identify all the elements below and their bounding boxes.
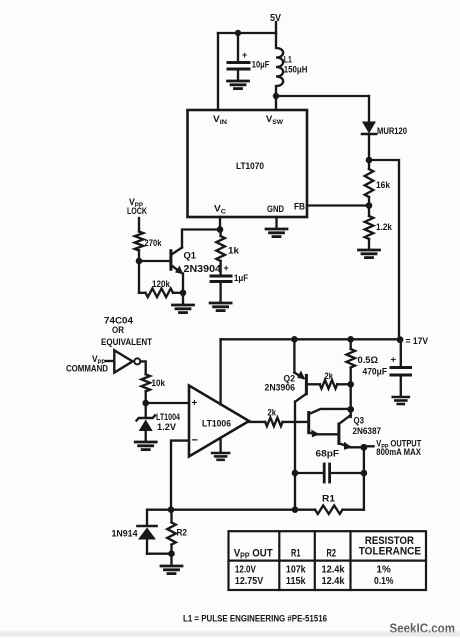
resistor 1k (216, 230, 239, 275)
node diode-16k junction (366, 157, 373, 164)
diode LT1004 1.2V reference (135, 403, 180, 450)
resistor 1.2k (365, 206, 393, 250)
capacitor C1 10uF (228, 33, 270, 89)
svg-text:68pF: 68pF (316, 449, 340, 460)
node L1 note (183, 614, 327, 624)
svg-text:1%: 1% (376, 564, 391, 576)
resistor 16k (365, 160, 391, 206)
svg-text:R2: R2 (327, 548, 337, 560)
wire 0.5ohm node down (347, 384, 354, 417)
svg-text:470μF: 470μF (363, 367, 388, 378)
resistor R1 (171, 494, 364, 515)
svg-text:16k: 16k (376, 180, 391, 191)
svg-text:TOLERANCE: TOLERANCE (359, 546, 421, 558)
resistor 0.5 ohm (346, 339, 378, 387)
op-amp U2 LT1006 (189, 386, 249, 457)
wire FB to divider (307, 202, 372, 209)
svg-text:1N914: 1N914 (112, 529, 139, 540)
wire Q2 collector drop (294, 402, 296, 510)
svg-text:0.5Ω: 0.5Ω (358, 355, 379, 366)
diode D2 1N914 (112, 526, 172, 554)
svg-text:EQUIVALENT: EQUIVALENT (101, 337, 152, 348)
wire inverting input feedback (168, 441, 189, 513)
svg-text:LT1006: LT1006 (202, 419, 231, 430)
wire scan smudge bottom (0, 632, 460, 637)
svg-text:LOCK: LOCK (127, 206, 147, 217)
table resistor values (229, 531, 427, 590)
wire inverter output (141, 361, 146, 374)
svg-text:+: + (224, 263, 229, 273)
wire output node down (361, 447, 368, 509)
svg-text:0.1%: 0.1% (374, 575, 394, 587)
svg-text:150μH: 150μH (284, 65, 308, 76)
svg-text:+: + (242, 50, 247, 60)
ground below 1.2k (359, 250, 380, 258)
svg-text:+: + (391, 355, 397, 366)
gate 74C04 inverter (101, 316, 152, 373)
svg-text:2k: 2k (325, 371, 334, 382)
svg-text:2N3906: 2N3906 (265, 383, 296, 394)
svg-text:1.2k: 1.2k (376, 222, 393, 233)
ground op-amp (212, 438, 229, 460)
svg-text:10μF: 10μF (252, 60, 270, 71)
node 17V label (406, 336, 429, 347)
svg-text:L1 = PULSE ENGINEERING #PE-515: L1 = PULSE ENGINEERING #PE-51516 (183, 614, 327, 624)
wire top horizontal (218, 30, 276, 36)
svg-text:R1: R1 (322, 494, 336, 505)
wire op-amp V+ riser (219, 339, 221, 404)
inductor L1 150uH (276, 33, 308, 96)
resistor 2k (op-amp output) (249, 408, 308, 427)
svg-text:800mA MAX: 800mA MAX (376, 447, 421, 458)
transistor Q2 2N3906 (265, 339, 307, 401)
node VPP OUTPUT (361, 438, 422, 458)
svg-text:12.4k: 12.4k (322, 575, 345, 587)
transistor Q3 2N6387 darlington (309, 409, 381, 450)
node noninverting input junction (142, 400, 189, 407)
svg-text:120k: 120k (152, 279, 171, 290)
ground GND pin (266, 217, 287, 237)
svg-text:270k: 270k (145, 238, 163, 249)
wire VIN drop (217, 33, 219, 110)
svg-text:FB: FB (294, 202, 305, 213)
svg-text:1k: 1k (228, 246, 240, 257)
svg-text:−: − (192, 435, 198, 447)
svg-text:12.75V: 12.75V (235, 575, 263, 587)
svg-text:R1: R1 (291, 548, 301, 560)
svg-text:12.4k: 12.4k (322, 564, 345, 576)
svg-text:Q1: Q1 (184, 251, 197, 262)
svg-text:10k: 10k (152, 378, 166, 389)
svg-text:GND: GND (267, 204, 284, 215)
wire 17V rail (221, 336, 404, 343)
node watermark SeekIC.com (390, 622, 456, 636)
wire VSW node to diode (273, 93, 369, 110)
node 5V supply (270, 12, 281, 33)
diode D1 MUR120 (362, 96, 407, 160)
resistor R2 (167, 510, 187, 557)
svg-text:OR: OR (112, 325, 124, 336)
capacitor C2 1uF (210, 263, 248, 311)
svg-text:= 17V: = 17V (406, 336, 429, 347)
node VPP COMMAND input (66, 354, 114, 375)
svg-text:LT1070: LT1070 (236, 161, 264, 172)
svg-text:12.0V: 12.0V (235, 564, 256, 576)
IC U1 LT1070 (188, 110, 308, 217)
capacitor C4 68pF (292, 449, 364, 483)
transistor Q1 2N3904 (171, 248, 222, 293)
svg-text:COMMAND: COMMAND (66, 364, 108, 375)
node VPP LOCK input (127, 197, 147, 217)
svg-text:+: + (192, 398, 198, 409)
wire Q1 base (136, 258, 170, 265)
resistor 270k (135, 218, 162, 261)
resistor 120k (139, 261, 183, 297)
svg-text:1.2V: 1.2V (157, 422, 177, 433)
node Q1 emitter junction + ground (173, 290, 194, 313)
ground below R2 (161, 554, 182, 574)
resistor 10k (141, 374, 165, 403)
resistor 2k (Q2 base) (306, 371, 350, 389)
svg-text:Q3: Q3 (354, 416, 365, 427)
svg-text:2N6387: 2N6387 (353, 426, 382, 437)
wire VC to Q1 collector (182, 230, 220, 248)
svg-text:VPP OUT: VPP OUT (234, 548, 273, 561)
wire to 1N914 (147, 510, 171, 525)
svg-text:2k: 2k (268, 408, 277, 419)
svg-text:MUR120: MUR120 (377, 126, 407, 137)
svg-text:107k: 107k (286, 564, 306, 576)
svg-text:1μF: 1μF (234, 273, 248, 284)
svg-text:R2: R2 (177, 528, 188, 539)
wire VC pin down (217, 217, 224, 233)
wire to output rail (right vertical) (369, 160, 399, 340)
capacitor C3 470uF (363, 340, 411, 404)
svg-text:2N3904: 2N3904 (184, 264, 222, 275)
svg-text:115k: 115k (286, 575, 306, 587)
